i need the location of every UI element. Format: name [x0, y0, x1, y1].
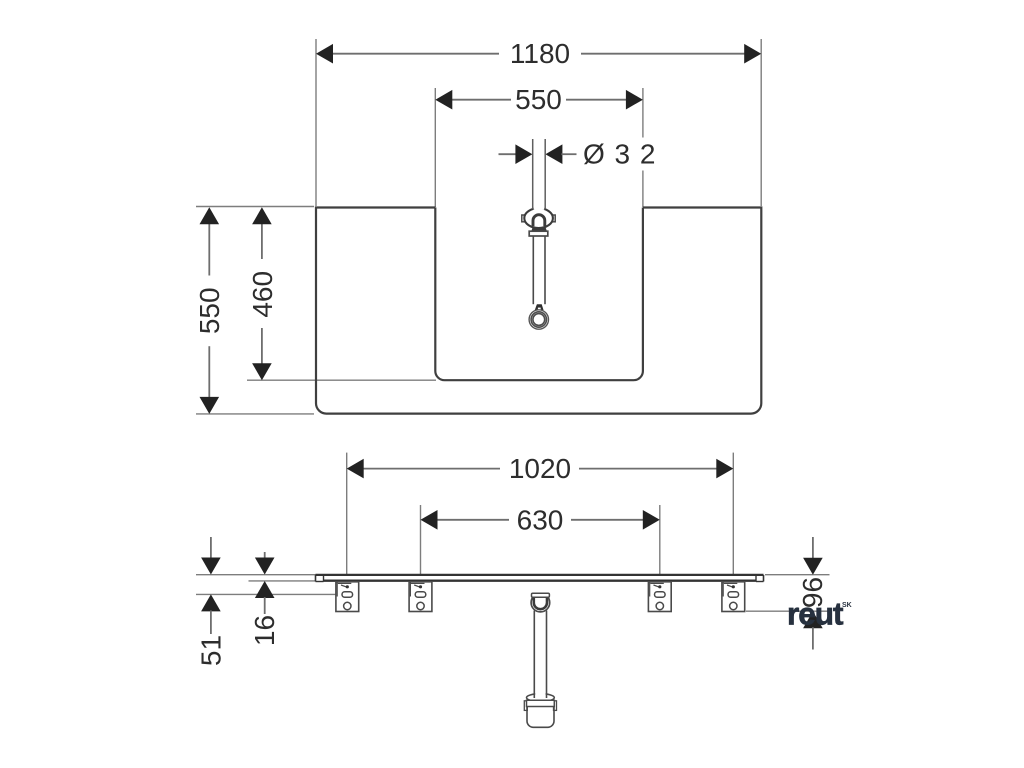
- mounting bracket 4: [722, 582, 745, 612]
- extension line left of dim 550 top: [434, 88, 436, 207]
- siphon pipe front view: [534, 611, 546, 699]
- mounting bracket 1: [336, 582, 359, 612]
- dimension 460 text: [247, 271, 278, 318]
- svg-text:550: 550: [515, 84, 562, 115]
- svg-text:550: 550: [194, 287, 225, 334]
- dimension 1180 line: [316, 44, 761, 64]
- dimension 51 text: [195, 635, 226, 666]
- extension line right of dim 550 top: [642, 88, 644, 207]
- siphon hook ring front view: [531, 593, 550, 612]
- svg-text:460: 460: [247, 271, 278, 318]
- drain pipe upper (plan view): [533, 139, 546, 210]
- dimension 51 vertical line: [201, 537, 221, 634]
- dimension 550 top line: [435, 90, 643, 110]
- svg-text:1180: 1180: [510, 38, 570, 69]
- siphon collar front view: [524, 700, 556, 710]
- dimension 16 vertical line: [255, 552, 275, 614]
- drain fitting collar: [529, 231, 548, 236]
- washbasin outer outline top view: [316, 208, 761, 414]
- extension line right of dim 1020: [732, 453, 734, 575]
- svg-text:reut: reut: [787, 595, 844, 631]
- siphon cup front view: [527, 707, 554, 728]
- extension line right of dim 630: [659, 505, 661, 575]
- mounting bracket 3: [648, 582, 671, 612]
- reut watermark logo: [787, 595, 852, 631]
- drain fitting dark band: [531, 227, 546, 231]
- drain pipe lower (plan view): [533, 236, 545, 304]
- extension line for dim 460 bottom: [247, 379, 436, 381]
- drain fitting inner hook arc (plan view): [533, 215, 545, 227]
- svg-text:Ø 3 2: Ø 3 2: [583, 139, 656, 170]
- svg-text:16: 16: [249, 615, 280, 646]
- siphon cup rim front view: [527, 694, 555, 702]
- extension line left of dim 1180: [315, 39, 317, 206]
- extension line left of dim 630: [420, 505, 422, 575]
- svg-text:1020: 1020: [509, 453, 571, 484]
- left extension line top edge: [196, 206, 314, 208]
- dimension 96 text: [797, 577, 828, 608]
- dimension 630 line: [421, 510, 660, 530]
- washbasin slab front view: [316, 575, 764, 582]
- dimension 1180 text: [510, 38, 570, 69]
- dimension 550 left text: [194, 287, 225, 334]
- dimension 1020 line: [347, 459, 734, 479]
- drain outlet circles (plan view): [529, 310, 548, 329]
- dimension 1020 text: [509, 453, 571, 484]
- left extension line bracket slot: [196, 593, 342, 595]
- left extension line bottom edge: [196, 413, 314, 415]
- dimension 550 left vertical line: [200, 207, 220, 414]
- drain fitting oval (plan view): [522, 208, 555, 228]
- mounting bracket 2: [409, 582, 432, 612]
- dimension 96 vertical line: [803, 537, 823, 650]
- right extension line slab top: [765, 574, 830, 576]
- drain clip (plan view): [535, 304, 544, 310]
- dimension 16 text: [249, 615, 280, 646]
- dimension diameter 32 arrows: [499, 144, 577, 164]
- svg-text:51: 51: [195, 635, 226, 666]
- svg-text:630: 630: [517, 504, 564, 535]
- dimension diameter 32 text: [583, 139, 656, 170]
- washbasin inner bowl outline top view: [435, 208, 643, 381]
- dimension 460 vertical line: [252, 207, 272, 380]
- dimension 630 text: [517, 504, 564, 535]
- extension line left of dim 1020: [346, 453, 348, 575]
- left extension line slab top: [196, 574, 316, 576]
- extension line right of dim 1180: [760, 39, 762, 206]
- left extension line slab bottom: [249, 580, 317, 582]
- svg-text:SK: SK: [842, 602, 852, 609]
- right extension line bracket bottom: [746, 610, 829, 612]
- dimension 550 top text: [515, 84, 562, 115]
